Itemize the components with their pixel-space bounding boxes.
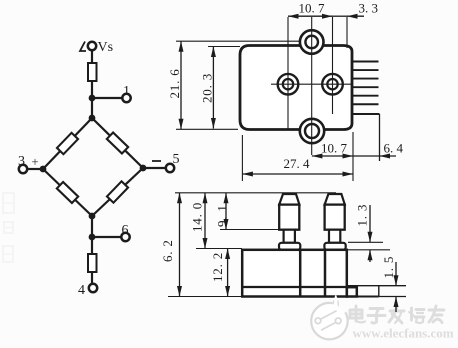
svg-text:6: 6: [122, 223, 129, 238]
svg-text:27. 4: 27. 4: [284, 156, 311, 171]
svg-text:3. 3: 3. 3: [359, 1, 379, 16]
svg-text:5: 5: [173, 152, 180, 167]
svg-text:+: +: [32, 155, 39, 169]
svg-text:1. 3: 1. 3: [355, 204, 370, 227]
svg-text:1: 1: [123, 84, 130, 99]
svg-text:10. 7: 10. 7: [321, 141, 348, 156]
svg-text:14. 0: 14. 0: [190, 202, 205, 232]
svg-text:6. 4: 6. 4: [384, 141, 404, 156]
svg-text:21. 6: 21. 6: [167, 69, 182, 99]
svg-text:6. 2: 6. 2: [160, 239, 175, 262]
svg-text:12. 2: 12. 2: [210, 252, 225, 282]
svg-text:10. 7: 10. 7: [299, 1, 326, 16]
svg-text:20. 3: 20. 3: [200, 73, 215, 103]
svg-text:4: 4: [78, 283, 85, 298]
svg-text:1. 5: 1. 5: [381, 256, 396, 279]
svg-text:9. 1: 9. 1: [214, 204, 229, 227]
svg-text:www.elecfans.com: www.elecfans.com: [353, 326, 454, 341]
svg-text:Vs: Vs: [98, 40, 114, 55]
svg-text:3: 3: [18, 154, 25, 169]
